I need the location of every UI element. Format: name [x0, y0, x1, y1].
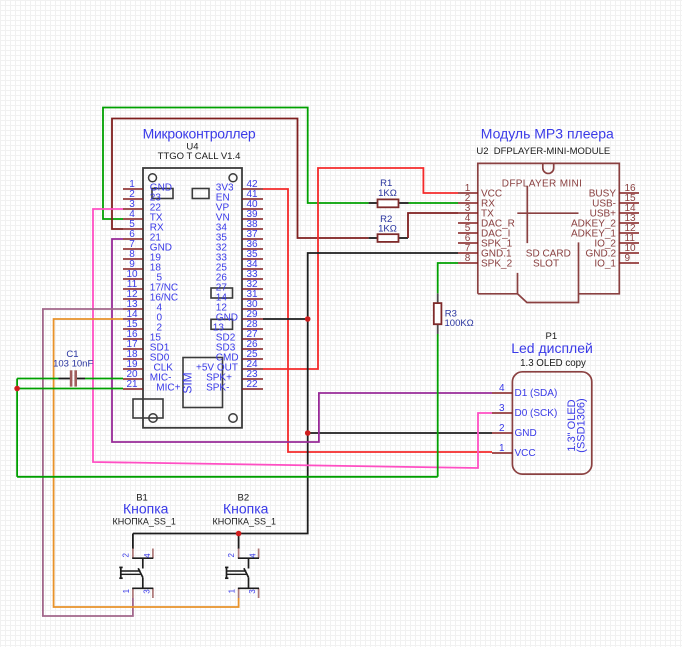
svg-text:SPK-: SPK-	[206, 383, 229, 394]
Led display P1 outline	[512, 372, 591, 474]
button B2 (КНОПКА_SS_1)	[225, 549, 259, 599]
wire: red net U4.3V3(42) to P1.VCC	[263, 189, 492, 452]
R3 value label 100KΩ	[445, 318, 474, 329]
svg-text:MIC+: MIC+	[156, 383, 180, 394]
svg-text:100KΩ: 100KΩ	[445, 318, 474, 329]
wire: black GND stub to P1.GND	[308, 432, 492, 434]
junction: GND at P1 GND wire	[305, 430, 311, 436]
wire: green left vertical down	[16, 379, 18, 477]
svg-text:SPK_2: SPK_2	[481, 259, 513, 270]
wire: black GND stub to U4.GND(29)	[263, 318, 308, 320]
wire: green MIC- net left segment	[17, 378, 58, 380]
svg-text:3: 3	[248, 589, 257, 594]
P1 title labels	[511, 331, 593, 369]
microcontroller U4 outline box	[133, 168, 242, 428]
svg-text:Led дисплей: Led дисплей	[511, 340, 593, 356]
U4 right pins 42-22 with numbers and labels	[196, 179, 263, 394]
wire: black stub down to button B2 pin2	[238, 534, 240, 550]
svg-text:2: 2	[499, 423, 505, 434]
wire: green net U4.TX(4) to R1 to U2.RX (part 1)	[103, 108, 369, 220]
svg-text:3: 3	[142, 589, 151, 594]
resistor R1	[369, 199, 409, 207]
B2 labels	[213, 493, 276, 527]
MP3 module U2 DFPLAYER-MINI-MODULE outline	[478, 163, 620, 302]
svg-text:1: 1	[499, 443, 505, 454]
svg-text:1: 1	[122, 588, 131, 593]
svg-text:3: 3	[499, 403, 505, 414]
wire: green vertical up to R3 bottom	[437, 334, 439, 477]
svg-text:22: 22	[246, 379, 258, 390]
svg-text:GND: GND	[515, 428, 537, 439]
svg-text:1.3 OLED copy: 1.3 OLED copy	[520, 358, 586, 369]
svg-text:U2 DFPLAYER-MINI-MODULE: U2 DFPLAYER-MINI-MODULE	[476, 146, 610, 157]
R1 value label 1KΩ	[378, 188, 397, 199]
U2 right pins 16-9 with numbers and labels	[571, 183, 639, 270]
U2 title labels	[476, 125, 614, 269]
R2 value label 1KΩ	[378, 224, 397, 235]
U4 SIM holder box	[181, 358, 223, 408]
svg-text:Микроконтроллер: Микроконтроллер	[143, 126, 256, 142]
wire: green net R1 to U2.RX (part 2)	[409, 202, 459, 204]
svg-text:Кнопка: Кнопка	[123, 501, 169, 517]
junction: green MIC net at left	[14, 386, 20, 392]
R3 designator label	[445, 309, 457, 320]
wire: green C1 to U4.MIC-(20)	[85, 378, 123, 380]
resistor R2	[369, 234, 408, 242]
wire: black stub down to button B1 pin2	[132, 534, 134, 550]
wire: maroon net R2 to U2.TX (part 2)	[408, 213, 458, 238]
wire: purple net U4.21(6) to P1.D1(SDA)	[112, 239, 492, 442]
svg-text:(SSD1306): (SSD1306)	[576, 398, 588, 452]
svg-text:4: 4	[499, 383, 505, 394]
resistor R3	[434, 293, 442, 334]
svg-text:1KΩ: 1KΩ	[378, 224, 397, 235]
svg-text:21: 21	[126, 379, 138, 390]
svg-text:D1 (SDA): D1 (SDA)	[515, 388, 558, 399]
svg-text:Кнопка: Кнопка	[223, 501, 269, 517]
svg-text:4: 4	[249, 553, 258, 558]
B1 labels	[112, 493, 175, 527]
svg-text:16/NC: 16/NC	[150, 293, 178, 304]
svg-text:103 10nF: 103 10nF	[53, 359, 93, 370]
svg-text:1KΩ: 1KΩ	[378, 188, 397, 199]
svg-text:TTGO T CALL V1.4: TTGO T CALL V1.4	[158, 151, 241, 162]
wire: magenta net U4.22(3) to P1.D0(SCK)	[93, 209, 492, 468]
U4 title labels	[143, 126, 256, 163]
wire: green bottom horizontal to R3	[17, 476, 438, 478]
svg-text:D0 (SCK): D0 (SCK)	[515, 408, 558, 419]
svg-text:9: 9	[625, 253, 631, 264]
svg-text:DFPLAYER MINI: DFPLAYER MINI	[502, 178, 583, 189]
wire: black GND net U2.GND.1 to buttons	[133, 253, 458, 534]
svg-text:8: 8	[465, 253, 471, 264]
wire: green R3 top to U2.SPK_2(8)	[438, 263, 458, 293]
svg-text:2: 2	[121, 553, 130, 558]
R1 designator label	[380, 178, 392, 189]
svg-text:2: 2	[227, 553, 236, 558]
svg-text:IO_1: IO_1	[594, 259, 616, 270]
svg-text:SIM: SIM	[181, 372, 195, 393]
wire: red net U4.+5V-OUT(24) to U2.VCC	[263, 168, 458, 369]
svg-text:VCC: VCC	[515, 448, 536, 459]
button B1 (КНОПКА_SS_1)	[119, 549, 153, 599]
svg-text:1: 1	[228, 588, 237, 593]
P1 pins 4,3,2,1 with numbers and labels	[492, 383, 557, 459]
U2 left pins 1-8 with numbers and labels	[458, 183, 515, 270]
capacitor C1	[59, 370, 86, 386]
wire: orange net U4.0(14) to button B2 pin1	[54, 319, 239, 607]
U4 left pins 1-21 with numbers and labels	[123, 179, 181, 394]
junction: GND at button B2 pin2	[236, 531, 242, 537]
junction: GND at U4 pin29	[305, 316, 311, 322]
svg-text:R1: R1	[380, 178, 392, 189]
C1 value label 103 10nF	[53, 359, 93, 370]
svg-text:КНОПКА_SS_1: КНОПКА_SS_1	[213, 517, 276, 527]
wire: green U4.MIC+(21) to left junction	[17, 388, 123, 390]
svg-text:КНОПКА_SS_1: КНОПКА_SS_1	[112, 517, 175, 527]
svg-text:Модуль MP3 плеера: Модуль MP3 плеера	[481, 125, 614, 141]
wire: plum net U4.4(13) to button B1 pin1	[43, 309, 133, 616]
svg-text:SLOT: SLOT	[533, 258, 559, 269]
C1 designator label	[66, 349, 78, 360]
svg-text:4: 4	[143, 553, 152, 558]
R2 designator label	[380, 214, 392, 225]
wire: maroon net U4.RX(5) to R2 (part 1)	[112, 119, 369, 239]
